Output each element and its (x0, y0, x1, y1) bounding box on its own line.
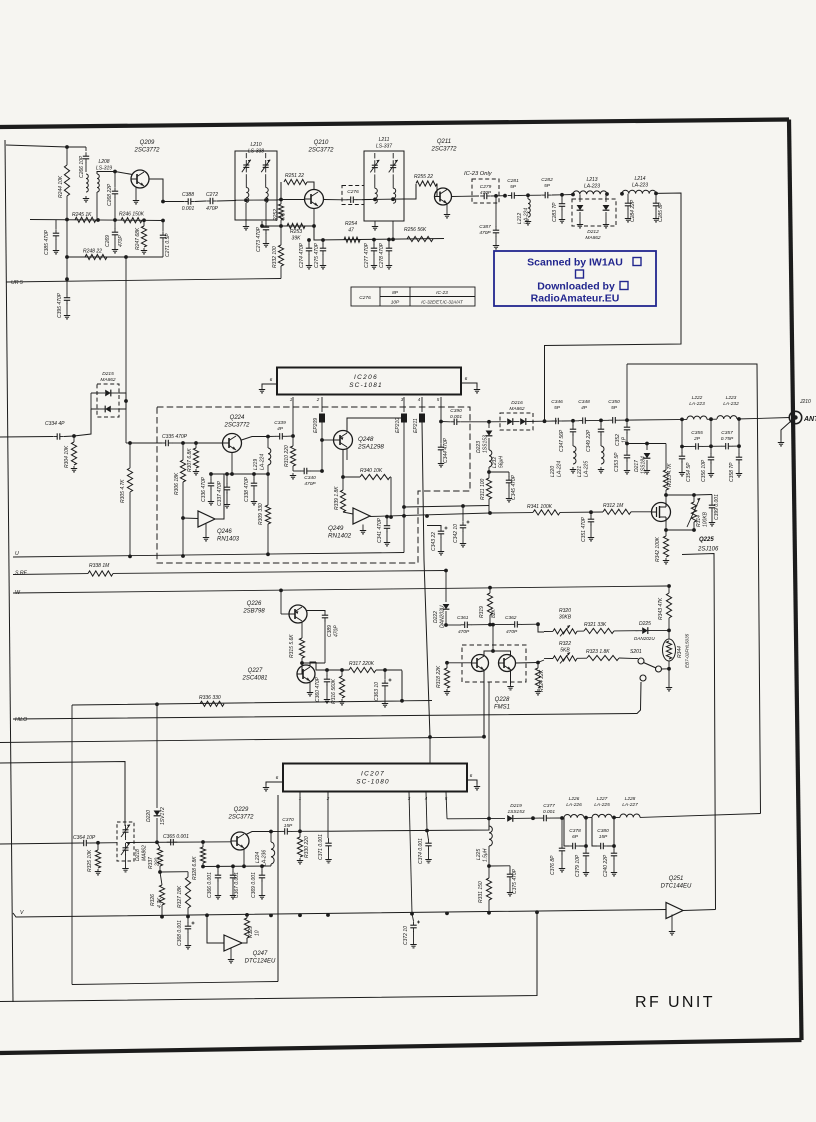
svg-text:LA-236: LA-236 (262, 850, 268, 866)
resistor R304 10K (73, 436, 75, 442)
svg-text:C273 470P: C273 470P (256, 226, 262, 252)
junction (439, 420, 443, 424)
svg-text:S201: S201 (630, 649, 642, 655)
svg-text:D217: D217 (634, 460, 640, 472)
junction (65, 255, 69, 259)
wire RX return box (627, 364, 761, 814)
svg-text:LA-226: LA-226 (566, 802, 582, 808)
wire C361 row (446, 624, 461, 626)
svg-text:C370: C370 (282, 817, 294, 823)
wire D219 row (447, 817, 505, 819)
svg-text:Q229: Q229 (234, 807, 249, 813)
wire C366 row (203, 865, 271, 868)
svg-text:C387: C387 (479, 224, 491, 230)
wire through L211 (364, 198, 404, 201)
wire lower feed line (0, 737, 485, 743)
junction (383, 668, 387, 672)
junction (245, 913, 249, 917)
wire pin1 row to D219 junction (329, 819, 489, 832)
junction (482, 735, 486, 739)
svg-text:30KB: 30KB (559, 614, 572, 620)
svg-text:D218: D218 (135, 849, 141, 861)
resistor R245 1K (75, 217, 96, 222)
svg-text:R245 1K: R245 1K (72, 212, 92, 218)
svg-text:R305 4.7K: R305 4.7K (120, 479, 126, 503)
junction (620, 192, 624, 196)
svg-text:R252: R252 (273, 209, 279, 221)
wire R245 row (30, 220, 163, 221)
svg-text:R248 22: R248 22 (83, 249, 102, 255)
svg-text:ANT: ANT (803, 416, 816, 423)
svg-text:C349 22P: C349 22P (586, 429, 592, 452)
junction (341, 475, 345, 479)
capacitor C285 8P (655, 193, 657, 200)
resistor R327 18K (187, 872, 189, 877)
capacitor C366 0.001 (217, 866, 219, 872)
junction (113, 218, 117, 222)
svg-text:L221: L221 (577, 466, 583, 477)
svg-text:C276: C276 (347, 189, 359, 195)
junction (543, 419, 547, 423)
capacitor C269 470P (114, 220, 116, 229)
svg-text:Q225: Q225 (699, 537, 714, 543)
resistor R336 330 (200, 701, 224, 706)
svg-text:C277 470P: C277 470P (364, 242, 370, 268)
ferrite bead EP211 (420, 414, 425, 422)
wire C276 to L211 (362, 199, 371, 201)
svg-text:L224: L224 (255, 852, 261, 863)
resistor R323 1.8K (587, 655, 619, 660)
junction (402, 416, 406, 420)
ground L211 left (374, 221, 376, 224)
transistor Q224 2SC3772 (223, 434, 242, 453)
wire varactor feed line (0, 762, 125, 823)
inductor L213 LA-223 (562, 194, 573, 196)
capacitor C343 22 (electrolytic) (427, 526, 441, 529)
resistor R317 220K (349, 667, 376, 672)
capacitor C349 22P (600, 420, 602, 426)
diode D222 DAN202U (443, 604, 450, 609)
schematic border top (thick) (0, 120, 789, 128)
capacitor C346 5P (555, 418, 557, 424)
resistor R319 82K (489, 588, 491, 594)
capacitor C362 470P (493, 623, 511, 625)
svg-text:C377: C377 (543, 803, 555, 809)
svg-text:J210: J210 (799, 399, 811, 405)
svg-text:C356 10P: C356 10P (701, 459, 707, 482)
junction (667, 667, 671, 671)
resistor R331 150 (488, 866, 490, 878)
wire pin2 EP209 line (321, 397, 323, 412)
svg-text:10P: 10P (391, 300, 400, 306)
capacitor C335 470P (130, 442, 162, 444)
svg-text:C334 4P: C334 4P (45, 421, 65, 427)
diode pair D216 MA862 (dashed) (500, 413, 533, 430)
resistor R252 470 (280, 200, 282, 205)
svg-text:LA-223: LA-223 (689, 401, 705, 407)
table C276 variants (351, 287, 475, 306)
svg-text:C390: C390 (450, 408, 462, 414)
svg-text:EB7-02FHL5035: EB7-02FHL5035 (685, 633, 690, 668)
wire pin3 IC207 down to V (409, 792, 412, 914)
junction (445, 661, 449, 665)
svg-text:C284 22P: C284 22P (630, 199, 636, 222)
wire L210 out to base node (277, 199, 281, 202)
junction (128, 555, 132, 559)
svg-text:C357: C357 (721, 430, 733, 436)
svg-text:D215: D215 (102, 371, 114, 377)
svg-text:C274 470P: C274 470P (299, 242, 305, 268)
wire Q225 drain (665, 495, 667, 503)
svg-text:C358 7P: C358 7P (729, 462, 735, 482)
svg-text:C389: C389 (327, 625, 333, 637)
rheostat R320 30KB (553, 629, 577, 634)
inductor L220 LA-224 (572, 434, 574, 446)
transistor Q228b (499, 655, 516, 672)
transistor Q210 2SC3772 (305, 190, 324, 209)
svg-text:R319: R319 (479, 606, 485, 618)
capacitor C378 6P bridge (564, 818, 569, 846)
ground L210 left (245, 203, 247, 224)
junction (291, 434, 295, 438)
IC206 box SC-1081 (277, 368, 461, 395)
svg-text:L213: L213 (586, 177, 597, 183)
svg-text:C385 470P: C385 470P (44, 229, 50, 255)
junction (65, 218, 69, 222)
junction (487, 470, 491, 474)
resistor R255 22 (404, 184, 416, 199)
wire base Q224 (183, 442, 223, 444)
svg-text:Q246: Q246 (217, 529, 232, 535)
svg-text:2SA1298: 2SA1298 (357, 444, 384, 451)
wire (707, 418, 717, 420)
capacitor C342 10 (electrolytic) (462, 506, 464, 521)
transistor Q226 2SB798 (PNP) (289, 605, 307, 623)
capacitor C340 470P (293, 470, 301, 472)
svg-text:C341 470P: C341 470P (377, 517, 383, 543)
transistor Q251 DTC144EU (digital) (666, 903, 683, 919)
svg-text:LA-224: LA-224 (260, 454, 266, 470)
svg-text:Q211: Q211 (437, 139, 451, 145)
junction (181, 441, 185, 445)
svg-text:C379 10P: C379 10P (575, 854, 581, 877)
svg-text:IC-23: IC-23 (436, 290, 448, 296)
junction (391, 238, 395, 242)
capacitor C376 8P (561, 818, 563, 845)
wire emitter row B (314, 226, 444, 240)
svg-text:2SC3772: 2SC3772 (223, 422, 250, 428)
capacitor C357 0.75P (711, 445, 722, 447)
wire D220 column (156, 704, 158, 806)
svg-text:C363 10: C363 10 (374, 682, 380, 701)
svg-text:Q228: Q228 (495, 697, 510, 703)
wire C352 row (627, 443, 666, 445)
junction (571, 419, 575, 423)
capacitor C380 15P bridge (592, 818, 597, 846)
svg-text:5P: 5P (554, 405, 561, 411)
junction (269, 830, 273, 834)
wire D215 to IF strip (125, 390, 127, 393)
svg-text:2SC4081: 2SC4081 (241, 675, 267, 681)
junction (531, 816, 535, 820)
capacitor C281 5P (511, 192, 513, 198)
junction (491, 649, 495, 653)
svg-text:C335 470P: C335 470P (162, 434, 188, 440)
svg-text:R322: R322 (559, 641, 571, 647)
capacitor C390 0.001 (441, 421, 450, 423)
svg-text:56μH: 56μH (499, 456, 505, 468)
svg-text:C347 56P: C347 56P (559, 429, 565, 452)
junction (487, 864, 491, 868)
capacitor C356 10P (710, 446, 712, 454)
resistor R326 4.7K (160, 872, 162, 885)
wire through L210 (235, 199, 277, 201)
svg-text:D225: D225 (639, 621, 651, 627)
wire Q210 collector out (324, 199, 343, 201)
svg-text:C371 0.001: C371 0.001 (318, 834, 324, 860)
wire Q226 emitter (301, 622, 303, 632)
svg-text:C269: C269 (105, 235, 111, 247)
IC207 box SC-1080 (283, 764, 467, 792)
svg-text:FMS1: FMS1 (494, 704, 510, 710)
wire antenna row (545, 420, 558, 422)
junction (599, 419, 603, 423)
svg-text:C337 470P: C337 470P (217, 480, 223, 506)
wire R340 feedback down (390, 477, 392, 517)
resistor R307 6.8K (195, 443, 197, 448)
svg-text:L208: L208 (98, 159, 109, 165)
wire Q224 collector (242, 437, 269, 441)
resistor R328 6.8K (202, 842, 204, 847)
ground R310/C340 (292, 473, 294, 476)
resistor R329 10 (242, 938, 247, 943)
schematic border bottom (thick) (0, 1040, 802, 1053)
svg-text:R310 220: R310 220 (284, 445, 290, 467)
capacitor C278 470P (388, 240, 390, 246)
resistor R256 56K (407, 236, 433, 241)
svg-text:R340 10K: R340 10K (360, 468, 383, 474)
capacitor C399 0.001 (694, 494, 712, 497)
wire Q228 drop line (488, 682, 490, 819)
capacitor C354 5P (681, 447, 683, 454)
wire Q248 emitter to pin3 line (347, 418, 404, 433)
junction (503, 194, 507, 198)
wire C364 row (0, 843, 80, 844)
svg-text:C388: C388 (182, 192, 194, 198)
wire Q225 source (665, 522, 667, 531)
svg-text:C376 8P: C376 8P (550, 855, 556, 875)
wire to Q227 base (297, 663, 302, 674)
svg-text:R326: R326 (150, 894, 156, 906)
ground Q249 (362, 525, 364, 529)
capacitor C277 470P (373, 240, 375, 246)
svg-text:R315 5.6K: R315 5.6K (289, 634, 295, 658)
wire Q211 collector out (452, 195, 463, 197)
svg-text:D220: D220 (146, 810, 152, 822)
wire supply to C266 (67, 146, 86, 148)
op-amp Q249 RN1402 (353, 508, 370, 524)
junction (645, 442, 649, 446)
resistor R246 150K (121, 218, 142, 223)
svg-text:R246 150K: R246 150K (119, 212, 145, 218)
svg-text:EP210: EP210 (395, 418, 401, 433)
transistor Q228a (472, 655, 489, 672)
svg-text:47: 47 (348, 227, 354, 233)
wire S RF drop D222 (445, 571, 447, 603)
svg-text:C282: C282 (541, 177, 553, 183)
svg-text:4P: 4P (277, 426, 284, 432)
svg-text:R337: R337 (148, 857, 154, 869)
svg-text:C281: C281 (507, 178, 519, 184)
junction (158, 870, 162, 874)
svg-text:R336 330: R336 330 (199, 695, 221, 701)
junction (536, 622, 540, 626)
wire supply entry top left (6, 145, 67, 147)
transistor Q229 2SC3772 (231, 832, 249, 850)
svg-text:R321 33K: R321 33K (584, 622, 607, 628)
wire R322 row (544, 658, 553, 660)
svg-text:LA-223: LA-223 (584, 183, 600, 189)
svg-text:IC-23 Only: IC-23 Only (464, 171, 493, 177)
junction V-R326 (160, 915, 164, 919)
capacitor C388 0.001 (163, 201, 184, 203)
junction (560, 193, 564, 197)
capacitor C370 15P (271, 830, 281, 832)
junction (142, 218, 146, 222)
svg-text:RF UNIT: RF UNIT (635, 994, 715, 1011)
svg-text:R253: R253 (290, 229, 302, 235)
capacitor C337 470P (226, 474, 228, 484)
wire pin4 EP211 line (421, 397, 423, 412)
wire Q225 source line to Q251 line (682, 554, 716, 910)
capacitor C358 7P (738, 446, 740, 454)
svg-text:C275 470P: C275 470P (314, 242, 320, 268)
junction (625, 442, 629, 446)
svg-text:C367 0.001: C367 0.001 (234, 872, 240, 898)
diode D220 1SV172 (156, 806, 158, 808)
svg-text:RN1402: RN1402 (328, 533, 352, 540)
svg-text:C354 5P: C354 5P (686, 462, 692, 482)
svg-text:C362: C362 (505, 615, 517, 621)
svg-text:C355: C355 (691, 430, 703, 436)
junction (389, 515, 393, 519)
svg-text:C360 470P: C360 470P (315, 676, 321, 702)
capacitor C365 0.001 (170, 839, 172, 845)
svg-text:C276: C276 (359, 295, 371, 301)
svg-text:Scanned by IW1AU: Scanned by IW1AU (527, 257, 623, 269)
wire L208 right coil down (96, 192, 98, 220)
capacitor C341 470P (386, 517, 388, 523)
capacitor C271 0.5P (162, 221, 164, 232)
svg-text:5KB: 5KB (560, 647, 570, 653)
wire pin1 IC206 down (292, 397, 294, 436)
wire L228 to RX box edge (640, 814, 761, 818)
junction (612, 844, 616, 848)
IF transformer L210 (235, 151, 277, 220)
svg-text:Q248: Q248 (358, 436, 374, 443)
svg-text:2P: 2P (693, 436, 701, 442)
junction (181, 516, 185, 520)
svg-text:2SC3772: 2SC3772 (227, 814, 254, 820)
svg-text:4.7K: 4.7K (157, 897, 163, 908)
svg-text:R328 6.8K: R328 6.8K (192, 856, 198, 880)
junction (737, 417, 741, 421)
svg-text:R325 10K: R325 10K (87, 849, 93, 872)
wire W drop to Q226 base (280, 590, 282, 614)
wire Q228b base-emitter (516, 662, 539, 665)
svg-text:C368 0.001: C368 0.001 (177, 920, 183, 946)
lamp-resistor R344 EB7-02FHL5035 (663, 639, 676, 661)
svg-text:470: 470 (281, 212, 287, 221)
junction V dots (269, 914, 273, 918)
svg-text:C365 0.001: C365 0.001 (163, 834, 189, 840)
resistor R305 4.7K (127, 468, 132, 492)
junction (402, 505, 406, 509)
junction (264, 198, 268, 202)
svg-text:5P: 5P (544, 183, 551, 189)
resistor R337 220 (157, 842, 160, 848)
wire Q224 emitter (231, 453, 233, 475)
svg-text:L225: L225 (476, 849, 482, 860)
svg-text:RadioAmateur.EU: RadioAmateur.EU (531, 293, 620, 305)
svg-text:C374 0.001: C374 0.001 (418, 838, 424, 864)
capacitor C364 10P (83, 840, 85, 846)
junction (124, 399, 128, 403)
wire filter output down to RX filter (545, 193, 682, 421)
svg-text:C348: C348 (578, 399, 590, 405)
wire Q226 collector to C389 (307, 611, 326, 613)
svg-text:R324 22K: R324 22K (539, 669, 545, 692)
resistor R248 22 (85, 254, 107, 259)
svg-text:R320: R320 (559, 608, 571, 614)
op-amp Q246 RN1403 (198, 511, 215, 527)
resistor R324 22K (537, 663, 539, 669)
svg-text:C346: C346 (551, 399, 563, 405)
svg-text:SC-1081: SC-1081 (349, 382, 383, 389)
svg-text:C378: C378 (569, 828, 581, 834)
svg-text:MA862: MA862 (100, 377, 116, 383)
svg-text:100KB: 100KB (703, 511, 709, 527)
wire pin4 long line down (422, 422, 430, 737)
wire Q229 base row (126, 841, 231, 844)
wire L211 right coil to row B (392, 221, 394, 239)
capacitor C279 470P (dashed, IC-23 only) (472, 179, 499, 203)
resistor R321 33K (584, 628, 614, 633)
junction base node (113, 170, 117, 174)
junction (692, 493, 696, 497)
capacitor C371 0.001 (328, 838, 330, 840)
svg-text:C279: C279 (480, 184, 492, 190)
svg-text:S RF: S RF (15, 571, 28, 577)
resistor R341 100K (533, 510, 560, 515)
stamp text line 2 square (576, 270, 584, 278)
junction (444, 623, 448, 627)
schematic border right (thick) (789, 120, 802, 1041)
junction (128, 441, 132, 445)
junction (260, 224, 264, 228)
junction (279, 224, 283, 228)
svg-text:L211: L211 (379, 137, 390, 143)
wire C362 to R320 row (538, 624, 544, 632)
svg-text:MA862: MA862 (585, 235, 601, 241)
svg-text:6: 6 (470, 773, 473, 779)
resistor R313 4.7K (665, 444, 667, 471)
wire pin1 IC207 down (299, 792, 301, 831)
ground Q211 emitter (446, 204, 448, 212)
ground S201/R344 (668, 669, 670, 685)
inductor L225 1.5uH (488, 819, 490, 827)
svg-text:R318 22K: R318 22K (436, 665, 442, 688)
